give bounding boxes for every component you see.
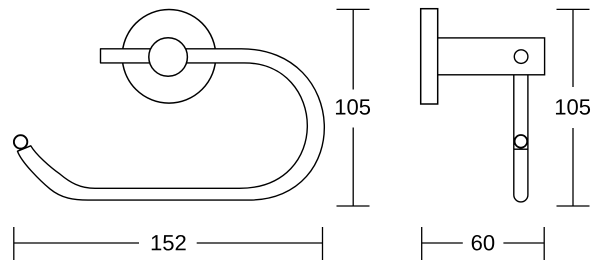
dimension text: right 105	[556, 99, 590, 115]
dimension: 60 right tick	[543, 227, 545, 260]
dimension: 152 horizontal line	[14, 242, 139, 244]
side view: wall plate	[421, 9, 438, 104]
side view: tube end cap line	[514, 148, 528, 150]
dimension text: left 105	[336, 99, 370, 115]
dimension: 60 horizontal line	[422, 242, 463, 244]
dimension: 152 right tick	[322, 227, 324, 260]
side view: arm	[438, 38, 545, 75]
dimension: right 105 bottom tick	[557, 205, 590, 207]
side view: screw circle	[514, 50, 528, 64]
side view: hanging bar with rounded bottom	[514, 70, 528, 202]
front view: ball end	[14, 135, 27, 148]
dimension: left 105 vertical line	[352, 9, 354, 89]
dimension: right 105 vertical line	[572, 9, 574, 87]
front view: hub circle	[149, 38, 188, 77]
dimension: left 105 bottom tick	[337, 205, 370, 207]
dimension: 152 left tick	[13, 227, 15, 260]
dimension: 60 left tick	[421, 227, 423, 260]
dimension: left 105 top tick	[337, 8, 370, 10]
dimension: right 105 top tick	[557, 8, 590, 10]
front view: holder tube	[18, 49, 325, 200]
dimension text: 152	[152, 235, 186, 251]
front view: wall flange circle	[122, 10, 216, 104]
side view: ball (seen edge-on)	[515, 135, 528, 148]
dimension text: 60	[472, 235, 495, 251]
